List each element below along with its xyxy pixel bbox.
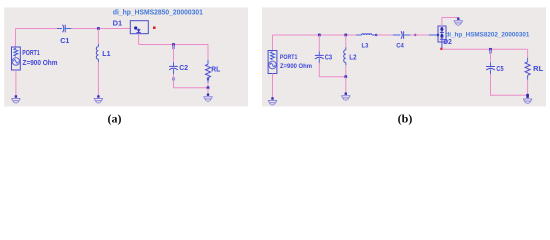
svg-text:D1: D1	[113, 19, 123, 28]
node junction RL bottom (a)	[207, 86, 210, 89]
node pin dot C4 right (b)	[414, 34, 416, 36]
svg-text:D2: D2	[443, 39, 451, 46]
svg-text:L2: L2	[349, 55, 356, 62]
pin mark D2 left (b)	[437, 34, 439, 36]
node junction rail/L1 (a)	[97, 27, 100, 30]
svg-text:(a): (a)	[108, 111, 122, 125]
wire C2 bottom (a)	[173, 74, 175, 88]
wire C4 to D2 (b)	[410, 34, 429, 36]
svg-text:(b): (b)	[398, 111, 413, 125]
diode D1 package	[130, 21, 148, 34]
wire port bottom to ground (b)	[272, 74, 274, 98]
red pin dot at D2 bottom corner	[440, 48, 442, 50]
wire C3 bottom corner right (b)	[319, 63, 346, 77]
port PORT1 (a)	[12, 47, 21, 70]
inductor L3	[356, 34, 376, 35]
ground above D2 (b)	[454, 18, 463, 26]
svg-text:Z=900 Ohm: Z=900 Ohm	[280, 63, 312, 70]
ground under PORT1 (a)	[11, 95, 20, 103]
ground under L1 (a)	[94, 95, 103, 103]
wire RL bottom to rail (a)	[207, 83, 209, 88]
svg-text:C1: C1	[60, 36, 69, 45]
wire D1 bottom down (a)	[138, 34, 140, 45]
wire port stem (b)	[272, 35, 274, 51]
wire RL bottom (b)	[527, 80, 529, 96]
wire L2 column top (b)	[345, 35, 347, 47]
wire D2 bottom pin (b)	[441, 42, 443, 49]
node junction C3 (b)	[318, 34, 321, 37]
panel (a) background	[4, 7, 248, 106]
inductor L1	[96, 44, 98, 62]
wire RL top corner down (b)	[527, 49, 529, 58]
svg-text:C4: C4	[396, 43, 404, 50]
svg-text:L1: L1	[102, 49, 110, 58]
panel (b) background	[262, 7, 546, 106]
wire port bottom to ground (a)	[15, 70, 17, 96]
svg-text:RL: RL	[211, 64, 220, 73]
capacitor C4	[393, 31, 410, 39]
inductor L2	[344, 47, 346, 65]
ground under L2 (b)	[341, 93, 350, 101]
svg-text:C5: C5	[496, 66, 503, 73]
wire C5 column (b)	[489, 49, 491, 62]
svg-text:PORT1: PORT1	[280, 54, 298, 61]
svg-text:RL: RL	[533, 66, 544, 73]
wire rail (b)	[273, 34, 358, 36]
wire to ground below RL (a)	[207, 88, 209, 94]
svg-text:PORT1: PORT1	[22, 50, 40, 57]
wire C5 bottom corner right (b)	[491, 74, 528, 95]
resistor RL (a)	[206, 60, 211, 83]
wire junction to ground (b)	[345, 77, 347, 93]
svg-text:L3: L3	[362, 43, 369, 50]
capacitor C3	[315, 52, 324, 64]
svg-text:di_hp_HSMS8202_20000301: di_hp_HSMS8202_20000301	[445, 31, 529, 38]
wire D2 corner to RL (b)	[442, 48, 528, 50]
svg-text:Z=900 Ohm: Z=900 Ohm	[23, 60, 58, 67]
capacitor C1	[57, 25, 71, 33]
lead into D2 (b)	[429, 34, 438, 36]
svg-text:C2: C2	[179, 63, 188, 72]
node pin dot L3 right (b)	[375, 34, 377, 36]
wire RL top corner down (a)	[207, 45, 209, 60]
port PORT1 (b)	[268, 51, 277, 74]
capacitor C5	[486, 63, 495, 75]
pin mark C2 bottom (a)	[172, 77, 174, 80]
node junction C5 top (b)	[489, 48, 492, 51]
wire C2 column (a)	[172, 45, 174, 63]
resistor RL (b)	[525, 58, 530, 80]
wire L1 to ground (a)	[97, 62, 99, 96]
node junction RL bottom (b)	[526, 94, 529, 97]
wire rail port-C1-L1-D1 (a)	[16, 28, 58, 30]
ground under PORT1 (b)	[268, 97, 277, 105]
wire port stem (a)	[15, 29, 17, 48]
wire bottom rail C2 to RL (a)	[174, 87, 209, 89]
wire node row D1 to RL top (a)	[139, 44, 208, 46]
wire L2 bottom to junction (b)	[345, 65, 347, 77]
capacitor C2	[169, 62, 178, 74]
wire C3 column top (b)	[318, 35, 320, 52]
pin mark RL bottom (a)	[207, 77, 209, 80]
svg-text:C3: C3	[325, 55, 332, 62]
wire junction to L1 (a)	[97, 29, 99, 45]
red pin dot right of D1	[153, 27, 156, 30]
ground under RL (b)	[523, 96, 532, 104]
svg-text:di_hp_HSMS2850_20000301: di_hp_HSMS2850_20000301	[113, 7, 203, 16]
node junction C2 top (a)	[172, 43, 175, 46]
node junction C3/L2 (b)	[344, 75, 347, 78]
wire D2 top to ground (b)	[442, 18, 458, 27]
diode D2 package	[438, 26, 446, 42]
node junction L2 (b)	[344, 34, 347, 37]
ground under RL (a)	[203, 94, 212, 102]
wire L3 to C4 (b)	[376, 34, 393, 36]
